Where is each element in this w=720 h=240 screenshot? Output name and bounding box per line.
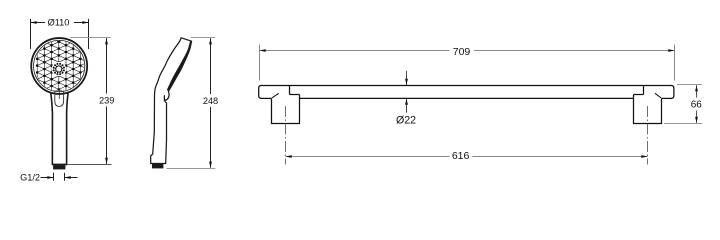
- dimension 709: [260, 45, 675, 81]
- svg-text:616: 616: [452, 150, 470, 162]
- neck center line: [58, 91, 60, 100]
- spray face lattice: [36, 38, 88, 92]
- tube top line: [261, 85, 673, 87]
- dimension 616: [286, 156, 648, 158]
- svg-text:239: 239: [99, 95, 114, 105]
- right block: [634, 95, 662, 124]
- right end cap: [672, 86, 674, 99]
- tube bottom line segments: [261, 97, 272, 99]
- center ornament: [52, 62, 67, 77]
- svg-text:709: 709: [453, 46, 471, 58]
- G1/2 nut (side, filled): [152, 164, 163, 168]
- centerlines: [286, 106, 648, 165]
- svg-text:G1/2: G1/2: [20, 173, 40, 183]
- svg-text:66: 66: [691, 100, 703, 111]
- handle (front view): [51, 93, 68, 165]
- left collar: joint + ledge: [289, 86, 291, 95]
- dimension O110: [31, 19, 89, 49]
- side spray-face thick band: [167, 41, 191, 91]
- dimension G1/2: [41, 173, 78, 181]
- svg-text:Ø22: Ø22: [396, 114, 416, 126]
- head outer circle: [31, 38, 87, 94]
- neck slot detail: [55, 91, 64, 107]
- G1/2 nut (front, filled): [53, 165, 65, 169]
- side body outline: [151, 38, 192, 164]
- right collar diagonal: [655, 93, 661, 98]
- dimension 239: [70, 37, 111, 39]
- left collar diagonal: [272, 93, 279, 98]
- head inner rim circle: [34, 40, 85, 91]
- svg-text:Ø110: Ø110: [48, 17, 70, 27]
- left end cap: [259, 86, 261, 99]
- dimension O22: [406, 71, 408, 113]
- svg-text:248: 248: [203, 96, 218, 106]
- right collar: joint + ledge: [643, 86, 645, 95]
- left block: [272, 95, 300, 124]
- dimension 66: [664, 85, 702, 124]
- dimension 248: [191, 37, 216, 39]
